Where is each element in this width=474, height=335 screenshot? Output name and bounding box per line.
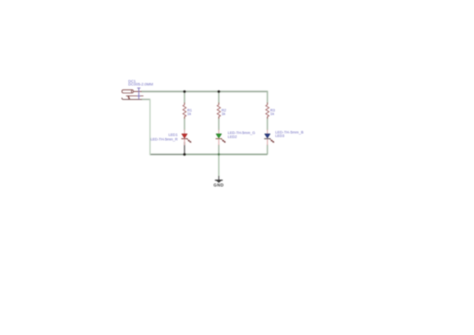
node junction bottom bus / GND stem [218, 153, 220, 155]
wire GND stem [218, 154, 220, 176]
svg-text:LED2: LED2 [228, 135, 237, 139]
wire from DC jack sleeve pin to left drop [142, 98, 151, 100]
node junction top bus / R1 [183, 90, 186, 93]
wire top bus VIN [141, 91, 267, 93]
LED LED1 red [181, 130, 191, 146]
wire LED2 bottom to bottom bus [218, 145, 220, 155]
resistor R3 [266, 103, 269, 119]
svg-text:GND: GND [213, 183, 224, 188]
svg-text:LED1: LED1 [168, 133, 177, 137]
LED LED3 blue [264, 130, 274, 146]
wire R3 bottom to LED3 [266, 117, 268, 130]
node junction top bus / R2 [218, 90, 221, 93]
svg-text:1k: 1k [270, 112, 274, 116]
wire LED1 bottom to bottom bus [184, 142, 186, 155]
wire right branch down from top bus to R3 [266, 91, 268, 104]
wire R1 bottom to LED1 [184, 117, 186, 130]
svg-text:1k: 1k [222, 112, 226, 116]
ground symbol [215, 176, 223, 183]
wire B2 branch: top bus to R2 [218, 92, 220, 105]
LED LED2 green [216, 130, 226, 146]
resistor R1 [183, 103, 186, 119]
connector DC1 switch pin (pin 3) [137, 88, 140, 99]
svg-text:LED3: LED3 [275, 134, 284, 138]
svg-text:DC005-2.0MM: DC005-2.0MM [128, 83, 153, 87]
wire B1 branch: top bus to R1 [184, 92, 186, 105]
wire R2 bottom to LED2 [218, 117, 220, 130]
wire left vertical drop to bottom bus [149, 99, 151, 155]
svg-text:1k: 1k [187, 112, 191, 116]
svg-text:LED-TH-5mm_R: LED-TH-5mm_R [150, 138, 177, 142]
wire bottom bus GND net [150, 153, 185, 155]
node junction bottom bus / LED1 [183, 153, 186, 156]
wire LED3 bottom to bottom bus [266, 145, 268, 155]
connector DC1 barrel jack symbol [122, 90, 143, 100]
resistor R2 [217, 103, 220, 119]
